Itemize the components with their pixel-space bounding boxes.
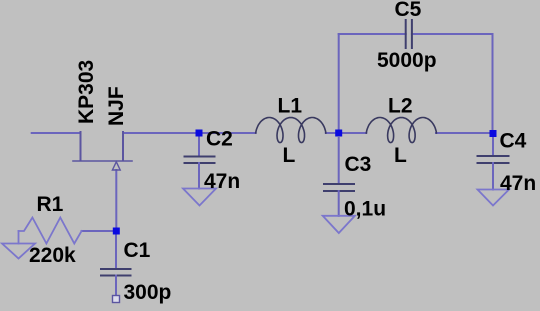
wire [412,33,493,35]
wire [492,34,494,133]
ground [2,244,35,259]
svg-text:C4: C4 [500,130,527,153]
ground [478,190,510,206]
wire [18,231,20,244]
capacitor C5 [406,20,412,48]
svg-text:C2: C2 [206,128,233,151]
svg-text:L1: L1 [278,95,303,118]
svg-text:C1: C1 [124,239,151,262]
capacitor C3 [324,137,354,216]
inductor L1 [256,118,326,143]
node N4 junction [113,228,120,235]
svg-text:0,1u: 0,1u [344,198,386,221]
svg-text:5000p: 5000p [377,49,437,72]
wire [338,34,340,133]
node N3 junction [490,130,497,137]
node N2 junction [196,130,203,137]
port P1 [113,296,120,303]
wire [115,170,117,231]
svg-text:R1: R1 [37,193,64,216]
svg-text:47n: 47n [500,172,536,195]
wire [339,33,406,35]
svg-text:L2: L2 [388,95,413,118]
svg-text:220k: 220k [29,244,76,267]
capacitor C2 [185,133,215,189]
wire [82,230,117,232]
capacitor C1 [101,231,131,296]
svg-text:NJF: NJF [105,86,128,126]
capacitor C4 [478,133,509,190]
svg-text:C5: C5 [395,0,422,21]
wire [32,132,81,134]
svg-text:L: L [283,144,296,167]
wire [123,132,256,134]
svg-text:300p: 300p [124,281,172,304]
node N1 junction [335,130,342,137]
svg-text:L: L [394,144,407,167]
svg-text:47n: 47n [204,170,240,193]
ground [183,189,216,206]
inductor L2 [366,118,436,143]
svg-text:C3: C3 [345,153,372,176]
resistor R1 [19,218,82,244]
transistor J1 KP303 [73,132,132,170]
wire [436,132,493,134]
ground [323,216,355,233]
wire [326,132,367,134]
svg-text:KP303: KP303 [75,60,98,124]
